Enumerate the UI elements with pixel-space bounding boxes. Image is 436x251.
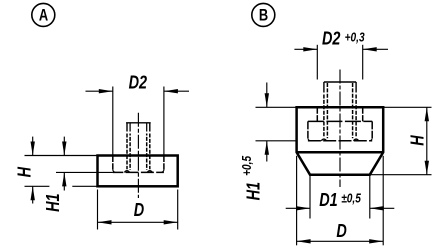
svg-text:D2: D2 bbox=[129, 72, 148, 93]
view A counterbore bottom (hidden) bbox=[113, 171, 164, 173]
svg-text:D2: D2 bbox=[322, 28, 341, 49]
view B counterbore right wall (hidden) bbox=[362, 107, 364, 121]
view A thread major right (hidden) bbox=[149, 123, 151, 132]
svg-text:H1: H1 bbox=[42, 193, 63, 211]
dimension D1 (view B) line+arrows bbox=[286, 207, 310, 209]
dimension D2 (view B) extension lines bbox=[316, 45, 318, 80]
view A centerline bbox=[137, 113, 139, 198]
dimension H (view A) line+arrows bbox=[32, 137, 34, 156]
view A block outline bbox=[98, 156, 178, 187]
dimension H (view B) line+arrows bbox=[426, 107, 428, 174]
svg-text:D1: D1 bbox=[319, 189, 337, 210]
dimension D2 (view A) extension lines bbox=[112, 87, 114, 156]
view B lower cavity left wall (hidden) bbox=[307, 121, 309, 138]
dimension H (view B) extension lines bbox=[383, 106, 431, 108]
view B thread minor right (hidden) bbox=[352, 83, 354, 138]
view A thread minor right (hidden) bbox=[146, 123, 148, 132]
view B part outline bbox=[297, 107, 384, 174]
view A counterbore right wall (hidden) bbox=[163, 156, 165, 170]
dimension D (view B) extension lines bbox=[296, 156, 298, 246]
view A thread minor left (hidden) bbox=[129, 123, 131, 132]
view A thread cap line bbox=[126, 122, 151, 124]
svg-text:+0,3: +0,3 bbox=[345, 30, 365, 44]
view B transition edge bbox=[297, 151, 384, 154]
dimension D (view A) extension lines bbox=[97, 190, 99, 230]
view B thread minor left (hidden) bbox=[326, 83, 328, 138]
dimension D1 (view B) extension lines bbox=[309, 175, 311, 219]
svg-text:D: D bbox=[336, 220, 346, 241]
view B thread major left (hidden) bbox=[323, 82, 325, 93]
svg-text:A: A bbox=[39, 7, 49, 25]
view B shoulder line (hidden) bbox=[308, 120, 372, 122]
svg-text:+0,5: +0,5 bbox=[240, 155, 254, 175]
svg-text:H: H bbox=[407, 134, 428, 145]
view B thread cap line bbox=[324, 81, 356, 83]
view B thread major right (hidden) bbox=[355, 82, 357, 93]
view A counterbore left wall (hidden) bbox=[112, 156, 114, 170]
dimension H1 (view A) line+arrows bbox=[63, 137, 65, 156]
svg-text:B: B bbox=[259, 7, 268, 25]
dimension D2 (view A) line+arrows bbox=[86, 90, 113, 92]
label circle B bbox=[252, 3, 275, 26]
dimension D (view A) line+arrows bbox=[98, 221, 178, 223]
view B lower cavity right wall (hidden) bbox=[371, 121, 373, 138]
view B centerline bbox=[339, 70, 341, 188]
dimension D2 (view B) line+arrows bbox=[294, 48, 317, 50]
svg-text:±0,5: ±0,5 bbox=[341, 191, 361, 205]
svg-text:D: D bbox=[134, 199, 144, 220]
dimension H1 (view A) extension line bbox=[56, 171, 113, 173]
dimension D (view B) line+arrows bbox=[297, 240, 384, 242]
dimension H1 (view B) extension lines bbox=[256, 106, 297, 108]
view B lower cavity bottom (hidden) bbox=[308, 140, 372, 142]
dimension H1 (view B) line+arrows bbox=[266, 83, 268, 108]
view A thread major left (hidden) bbox=[126, 123, 128, 132]
dimension H (view A) extension lines bbox=[25, 155, 98, 157]
svg-text:H1: H1 bbox=[243, 182, 264, 200]
svg-text:H: H bbox=[14, 166, 35, 177]
view B counterbore left wall (hidden) bbox=[316, 107, 318, 121]
label circle A bbox=[32, 3, 55, 26]
